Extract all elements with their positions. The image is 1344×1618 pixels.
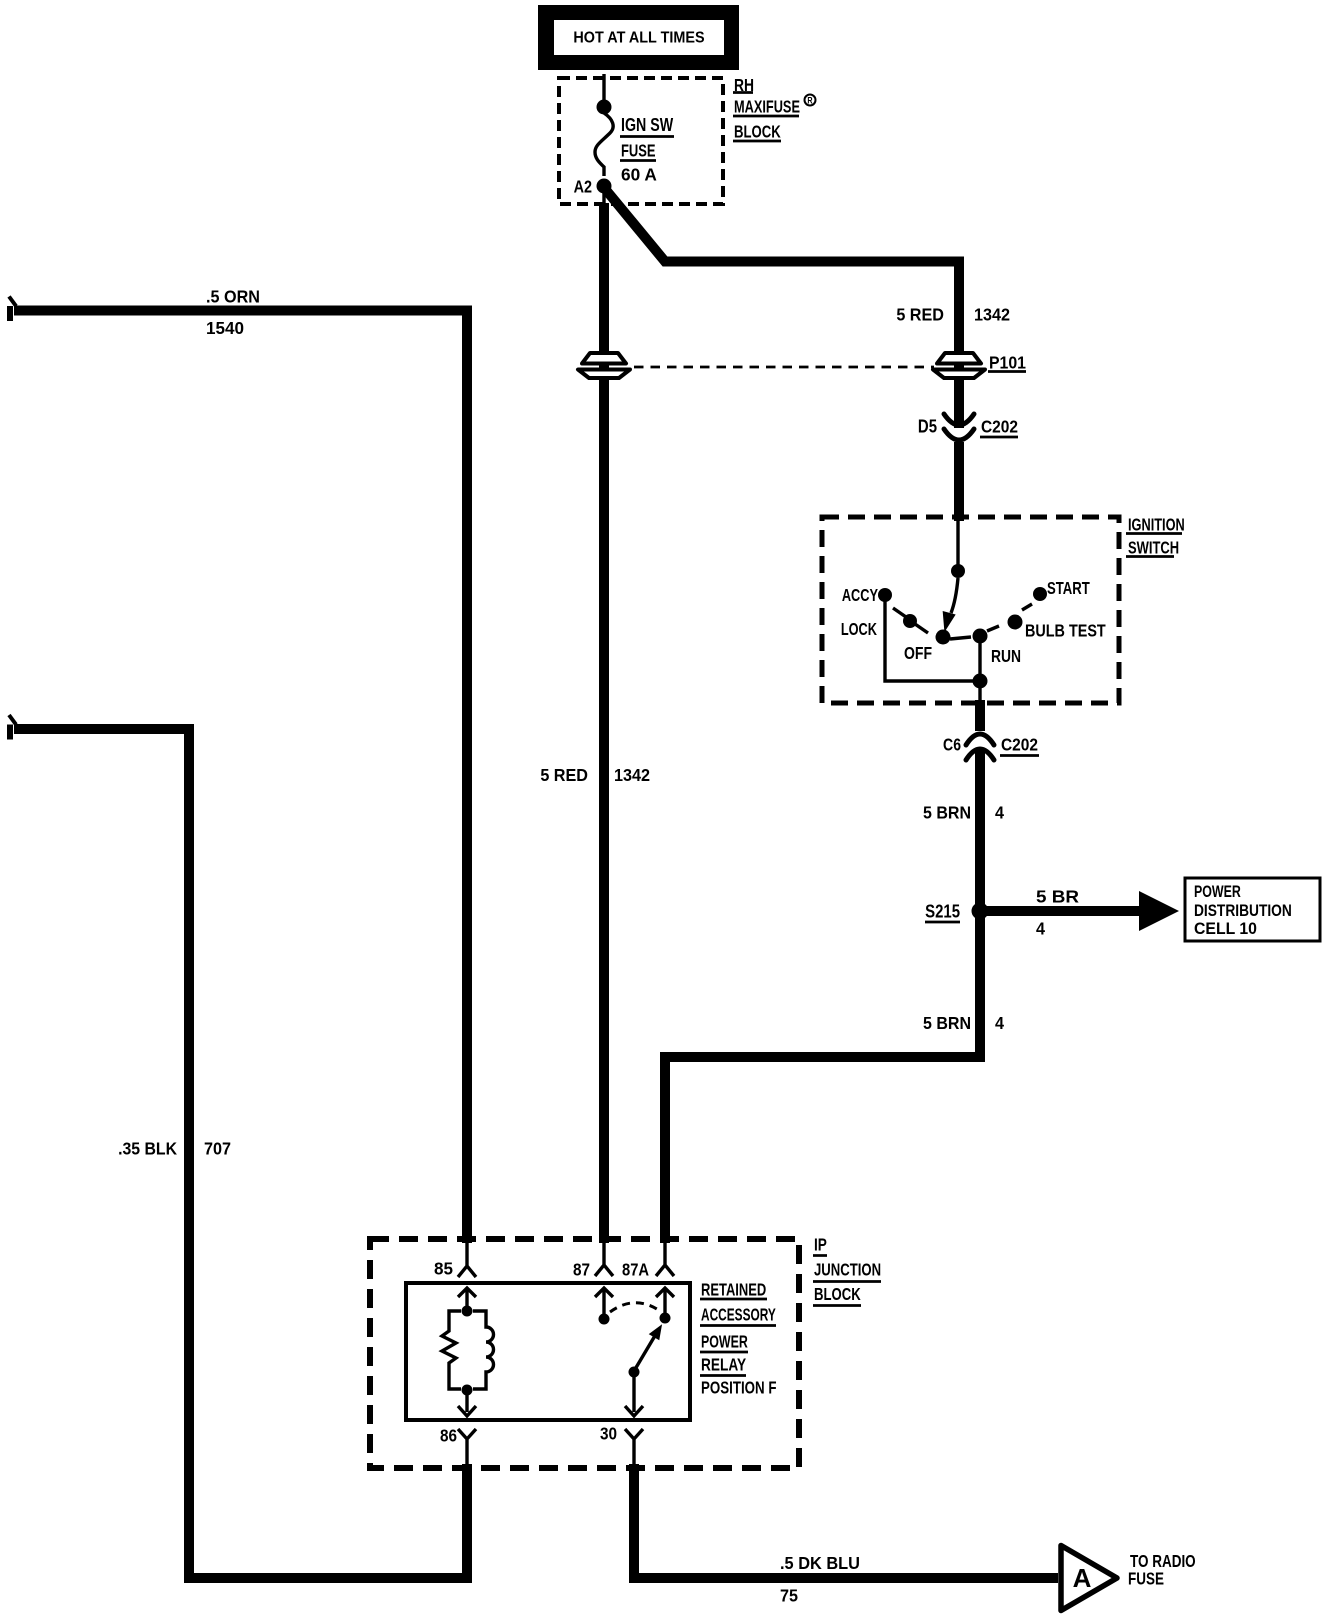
node ACCY (878, 588, 892, 602)
svg-text:60 A: 60 A (621, 164, 657, 184)
svg-text:4: 4 (995, 803, 1004, 823)
node A2 (597, 179, 612, 194)
junction dot top of fuse (597, 100, 612, 115)
pin 87A male pin arrow (656, 1288, 674, 1318)
svg-text:IP: IP (814, 1236, 827, 1255)
svg-text:1342: 1342 (614, 765, 650, 785)
pin 30 male pin arrow (625, 1372, 643, 1416)
svg-text:87A: 87A (622, 1260, 649, 1280)
wire into switch wiper (956, 519, 959, 566)
power feed box HOT AT ALL TIMES (538, 5, 739, 70)
detent segment LOCK-OFF (915, 624, 928, 633)
RH maxifuse block dashed box (559, 78, 723, 204)
relay blade pivot node (629, 1367, 640, 1378)
ignition switch dashed box (822, 517, 1119, 703)
svg-text:LOCK: LOCK (841, 620, 878, 640)
wire pin 30 to radio fuse (634, 1464, 1058, 1578)
svg-text:4: 4 (1036, 919, 1045, 939)
svg-text:START: START (1047, 579, 1090, 598)
svg-text:POWER: POWER (701, 1332, 748, 1352)
svg-text:.5 DK BLU: .5 DK BLU (780, 1552, 860, 1573)
pin 86 male pin arrow (458, 1390, 476, 1416)
grommet left (578, 353, 630, 378)
wire diagonal from A2 to right branch (606, 190, 959, 428)
junction dot ignition output (973, 674, 988, 689)
node BULB TEST (1008, 615, 1023, 630)
svg-text:RELAY: RELAY (701, 1356, 746, 1375)
svg-text:87: 87 (573, 1259, 590, 1279)
label IP JUNCTION BLOCK (813, 1236, 881, 1306)
svg-text:CELL 10: CELL 10 (1194, 920, 1257, 939)
svg-text:P101: P101 (989, 353, 1026, 373)
svg-text:MAXIFUSE: MAXIFUSE (734, 98, 800, 118)
wire .5 ORN 1540 (14, 311, 467, 1244)
relay coil loop with resistor and winding (442, 1311, 461, 1389)
detent segment BULB TEST-START (1022, 604, 1032, 610)
label RETAINED ACCESSORY POWER RELAY POSITION F (700, 1281, 777, 1398)
node RUN (973, 629, 988, 644)
dashed travel arc 87 to 87A (610, 1303, 660, 1312)
svg-text:707: 707 (204, 1139, 231, 1159)
svg-text:ACCY: ACCY (842, 586, 879, 606)
fuse IGN SW FUSE 60 A (595, 113, 613, 176)
svg-text:5 BRN: 5 BRN (923, 803, 971, 823)
svg-text:75: 75 (780, 1586, 798, 1606)
relay coil top node (462, 1306, 473, 1317)
grommet P101 right (933, 353, 985, 378)
pin 86 female connector (458, 1429, 476, 1464)
svg-text:85: 85 (434, 1258, 453, 1279)
svg-text:POSITION F: POSITION F (701, 1379, 777, 1398)
svg-text:C202: C202 (1001, 734, 1038, 754)
label RH MAXIFUSE BLOCK (733, 75, 816, 142)
svg-text:JUNCTION: JUNCTION (814, 1261, 881, 1280)
detent segment OFF-RUN (950, 637, 971, 639)
svg-text:RETAINED: RETAINED (701, 1281, 766, 1301)
svg-text:5 BRN: 5 BRN (923, 1013, 971, 1033)
svg-text:5 BR: 5 BR (1036, 886, 1079, 906)
wire 5 RED 1342 from A2 down to pin 87 (602, 186, 605, 205)
svg-text:RUN: RUN (991, 646, 1021, 666)
svg-text:4: 4 (995, 1013, 1004, 1033)
svg-text:ACCESSORY: ACCESSORY (701, 1305, 776, 1325)
wire end hook orange (7, 306, 13, 321)
detent segment ACCY-LOCK (893, 608, 906, 617)
svg-text:TO RADIO: TO RADIO (1130, 1552, 1196, 1571)
svg-text:BLOCK: BLOCK (734, 123, 781, 142)
wire C6 down to S215 and to 87A (665, 751, 980, 1243)
svg-text:.5 ORN: .5 ORN (206, 287, 260, 307)
arrow wire to power distribution (985, 906, 1142, 916)
wire RUN branch down (978, 642, 981, 705)
wiper pivot dot (951, 564, 965, 578)
relay coil bottom node (462, 1385, 473, 1396)
svg-text:5 RED: 5 RED (896, 305, 944, 325)
pin 87 male pin arrow (595, 1288, 613, 1319)
node START (1033, 587, 1047, 601)
dashed bulkhead line (634, 366, 934, 369)
connector C6 C202 (966, 734, 994, 760)
box POWER DISTRIBUTION CELL 10 (1185, 878, 1320, 941)
relay switch blade with arrow (634, 1334, 656, 1371)
svg-text:DISTRIBUTION: DISTRIBUTION (1194, 902, 1292, 921)
svg-text:BULB TEST: BULB TEST (1025, 621, 1106, 641)
svg-text:C6: C6 (943, 735, 961, 755)
svg-text:R: R (807, 96, 812, 106)
pin 85 male pin arrow (458, 1288, 476, 1311)
wire ACCY branch (885, 601, 974, 681)
wire ignition switch to C6 (975, 700, 985, 731)
svg-text:IGN SW: IGN SW (621, 115, 674, 135)
svg-text:POWER: POWER (1194, 883, 1241, 901)
label IGNITION SWITCH (1126, 516, 1185, 559)
svg-text:1540: 1540 (206, 318, 244, 339)
triangle A to radio fuse (1061, 1546, 1117, 1611)
svg-text:.35 BLK: .35 BLK (118, 1139, 178, 1159)
node 87A contact (660, 1313, 671, 1324)
detent segment RUN-BULB TEST (987, 626, 999, 631)
pin 30 female connector (625, 1429, 643, 1464)
svg-text:C202: C202 (981, 416, 1018, 436)
relay solid box (406, 1283, 690, 1420)
svg-text:D5: D5 (918, 416, 937, 437)
connector D5 C202 (944, 414, 974, 440)
wiper arm with arrow (951, 578, 958, 613)
svg-text:BLOCK: BLOCK (814, 1285, 861, 1304)
label IGN SW FUSE 60 A (620, 115, 674, 184)
wire .35 BLK 707 (14, 729, 467, 1578)
splice S215 (972, 903, 989, 920)
svg-text:86: 86 (440, 1425, 457, 1445)
pin 85 female connector (458, 1243, 476, 1277)
svg-text:FUSE: FUSE (1128, 1570, 1164, 1589)
pin 87 female connector (595, 1243, 613, 1276)
svg-text:HOT AT ALL TIMES: HOT AT ALL TIMES (573, 29, 704, 47)
svg-text:1342: 1342 (974, 305, 1010, 325)
svg-text:A2: A2 (574, 177, 592, 197)
svg-text:OFF: OFF (904, 643, 932, 663)
svg-text:30: 30 (600, 1423, 617, 1443)
wire from hot feed into fuse (602, 74, 605, 101)
svg-text:S215: S215 (925, 901, 960, 922)
node LOCK (903, 614, 917, 628)
pin 87A female connector (656, 1243, 674, 1276)
IP junction block dashed box (370, 1239, 799, 1468)
svg-text:FUSE: FUSE (621, 142, 656, 162)
node 87 contact (599, 1314, 610, 1325)
wire end hook black (7, 725, 13, 740)
wire connector to ignition switch (954, 442, 964, 521)
svg-text:A: A (1073, 1563, 1092, 1593)
node OFF (936, 630, 951, 645)
svg-text:5 RED: 5 RED (540, 765, 588, 785)
